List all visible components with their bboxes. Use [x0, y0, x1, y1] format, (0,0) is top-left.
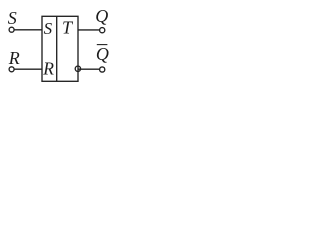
wire Q output: [78, 29, 100, 31]
svg-text:R: R: [8, 48, 20, 68]
terminal R: [9, 67, 14, 72]
flip-flop schematic (SR latch with T input): [0, 0, 118, 91]
svg-text:R: R: [42, 58, 54, 78]
inversion bubble on Qbar: [75, 66, 80, 71]
terminal S: [9, 27, 14, 32]
svg-text:Q: Q: [95, 6, 108, 26]
svg-text:S: S: [8, 8, 17, 28]
flip-flop body U1: [42, 16, 78, 81]
svg-text:S: S: [44, 19, 53, 38]
terminal Q: [100, 28, 105, 33]
svg-text:T: T: [62, 18, 74, 38]
overline of Qbar label: [97, 44, 108, 46]
svg-text:Q: Q: [96, 44, 109, 64]
wire R input: [14, 68, 42, 70]
wire S input: [14, 29, 42, 31]
wire Qbar output: [78, 68, 100, 70]
internal divider: [56, 16, 58, 81]
terminal Qbar: [100, 67, 105, 72]
